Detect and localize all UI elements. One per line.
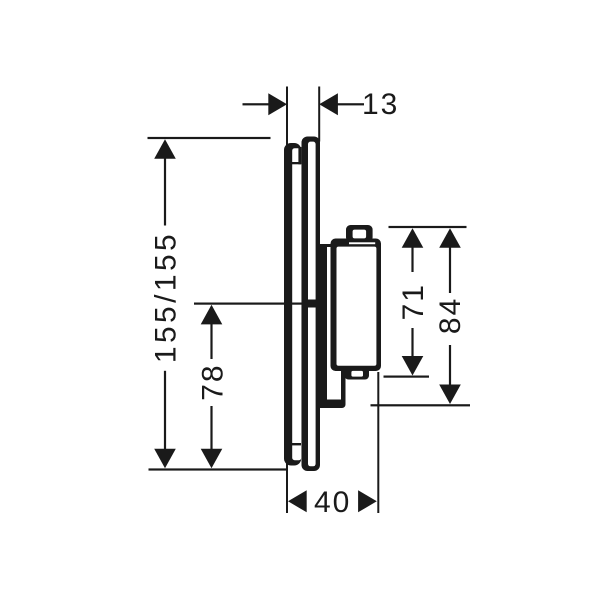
dim 13 leader line right <box>338 103 365 105</box>
escutcheon plate (side view) <box>302 137 321 472</box>
dim 71 stem lower <box>411 328 413 358</box>
dim 78 arrow down <box>201 449 223 469</box>
dim 155 stem lower <box>164 371 166 450</box>
dim 84 arrow down <box>439 385 461 405</box>
dim 13 arrow left (points right) <box>268 93 287 115</box>
valve bottom cap <box>345 367 370 380</box>
dim 155 top reference line <box>148 137 271 139</box>
right top reference line (71/84) <box>389 226 467 228</box>
wall flange (thin seal strip, side view) <box>284 143 301 466</box>
dim 40 arrow left (points left) <box>288 490 307 512</box>
svg-text:71: 71 <box>397 283 430 320</box>
dim 78 junction mark on plate <box>306 300 317 308</box>
dim 71 stem upper <box>411 247 413 272</box>
dim 13 extension line right <box>318 87 320 142</box>
dim 13 arrow right (points left) <box>319 93 338 115</box>
dim 40 arrow right (points right) <box>358 490 377 512</box>
dim 84 stem upper <box>449 247 451 293</box>
dim 40 extension line left <box>286 458 288 513</box>
flange top compartment edge <box>298 147 301 164</box>
dim 13 leader line left <box>243 103 269 105</box>
svg-text:155/155: 155/155 <box>150 231 183 363</box>
dim 155 arrow down <box>154 449 176 469</box>
dim 84 bottom reference line <box>371 404 471 406</box>
dim 155 stem upper <box>164 158 166 226</box>
svg-text:40: 40 <box>314 486 351 519</box>
valve body box <box>331 239 382 372</box>
bottom reference line (155/78) <box>149 468 288 470</box>
dim 40 extension line right <box>377 372 379 513</box>
dim 78 stem upper <box>210 324 212 359</box>
dim 71 arrow up <box>402 228 424 248</box>
dim 84 stem lower <box>449 345 451 386</box>
dim 155 arrow up <box>154 139 176 159</box>
dim 71 arrow down <box>402 356 424 376</box>
svg-text:78: 78 <box>196 363 229 400</box>
svg-text:84: 84 <box>434 297 467 334</box>
dim 78 top reference line <box>194 303 317 305</box>
dim 78 arrow up <box>201 305 223 325</box>
dim 78 stem lower <box>210 406 212 450</box>
flange joint line bottom <box>292 443 302 445</box>
svg-text:13: 13 <box>362 88 399 121</box>
dim 13 extension line left <box>286 87 288 149</box>
valve top cap <box>346 225 373 242</box>
dim 71 bottom reference line <box>384 376 430 378</box>
flange joint line top <box>292 162 302 164</box>
dim 84 arrow up <box>439 228 461 248</box>
mounting bracket (J-hook behind plate) <box>319 244 346 408</box>
